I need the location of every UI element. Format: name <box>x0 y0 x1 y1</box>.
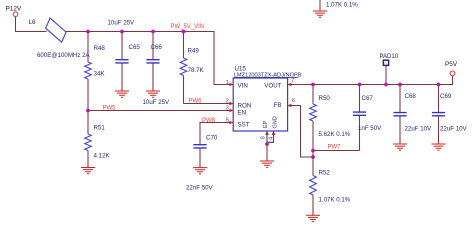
svg-text:7: 7 <box>291 78 294 84</box>
pin 2 RON <box>229 102 233 106</box>
junction PW7/FB <box>311 155 315 159</box>
junction rail/C69 <box>437 83 441 87</box>
pin 4 GND <box>272 131 276 135</box>
svg-text:C66: C66 <box>151 44 163 51</box>
wire net PW6 R49 to pin RON <box>184 103 234 105</box>
capacitor C67 <box>359 85 361 112</box>
junction EP/GND <box>265 142 269 146</box>
svg-text:FB: FB <box>274 102 282 109</box>
pin 1 VIN <box>229 83 233 87</box>
svg-text:R51: R51 <box>94 125 106 132</box>
svg-text:22uF 10V: 22uF 10V <box>440 126 468 133</box>
junction rail/C67 <box>358 83 362 87</box>
svg-text:78.7K: 78.7K <box>188 67 205 74</box>
svg-text:GND: GND <box>272 116 278 128</box>
svg-text:4.12K: 4.12K <box>94 153 111 160</box>
svg-text:R49: R49 <box>188 48 200 55</box>
svg-text:3: 3 <box>226 105 229 111</box>
wire net PW8 pin SST to C70 <box>200 123 233 145</box>
resistor R52 <box>312 157 314 176</box>
ground under C65 <box>115 91 129 97</box>
port P12V <box>13 12 18 17</box>
svg-text:EP: EP <box>263 120 269 128</box>
junction rail/C68 <box>398 83 402 87</box>
svg-text:VIN: VIN <box>238 82 248 89</box>
pin 8 EP <box>265 131 269 135</box>
cropped resistor stub at top with value 1.07K 0.1% <box>319 0 321 11</box>
junction rail/R49 <box>182 30 186 34</box>
junction rail/C66 <box>151 30 155 34</box>
capacitor C65 <box>121 32 123 60</box>
svg-text:PW8: PW8 <box>202 118 216 124</box>
wire P12V to bead L6 <box>16 17 47 32</box>
wire net P5V VOUT rail <box>288 76 453 85</box>
svg-text:P5V: P5V <box>445 61 458 68</box>
ground under R51 <box>81 168 95 174</box>
svg-text:R52: R52 <box>319 170 331 177</box>
junction rail/PAD10 <box>384 83 388 87</box>
svg-text:1: 1 <box>226 80 229 86</box>
svg-text:22uF 10V: 22uF 10V <box>405 126 433 133</box>
capacitor C70 <box>193 145 206 148</box>
pad PAD10 <box>383 60 388 65</box>
resistor R50 <box>312 85 314 105</box>
pin 5 SST <box>229 121 233 125</box>
pin 3 EN <box>229 109 233 113</box>
ground under C68 <box>393 144 407 150</box>
svg-text:C69: C69 <box>440 93 452 100</box>
ferrite bead L6 <box>46 18 67 42</box>
svg-text:10uF 25V: 10uF 25V <box>143 99 171 106</box>
wire EP/GND to ground <box>266 144 268 161</box>
wire net PW_5V_VIN bead to VIN <box>66 32 234 85</box>
svg-text:P12V: P12V <box>6 6 22 13</box>
ground under R52 <box>306 215 320 221</box>
resistor R48 <box>87 32 89 63</box>
svg-text:1.07K 0.1%: 1.07K 0.1% <box>319 197 351 204</box>
junction PW5/R51 <box>86 109 90 113</box>
svg-text:1.07K 0.1%: 1.07K 0.1% <box>326 1 358 8</box>
svg-text:5: 5 <box>226 118 229 124</box>
svg-text:SST: SST <box>238 122 250 129</box>
svg-text:2: 2 <box>226 98 229 104</box>
wire net PW7 <box>313 150 360 152</box>
ground under top stub <box>313 11 327 17</box>
wire net PW5 R48 to pin EN <box>88 110 233 112</box>
capacitor C69 <box>438 85 440 113</box>
svg-text:22nF 50V: 22nF 50V <box>186 185 214 192</box>
svg-text:R50: R50 <box>319 95 331 102</box>
svg-text:R48: R48 <box>94 45 106 52</box>
wire FB to PW7 <box>288 106 313 158</box>
ground under C66 <box>146 91 160 97</box>
IC bottom pins EP/GND tie <box>266 132 268 145</box>
op-amp regulator U15 LMZ12003TZX-ADJ/NOPB body <box>233 78 287 131</box>
svg-text:10uF 25V: 10uF 25V <box>108 20 136 27</box>
svg-text:C70: C70 <box>206 135 218 142</box>
ground under U15 <box>260 161 274 167</box>
svg-text:1nF 50V: 1nF 50V <box>358 125 382 132</box>
svg-text:8: 8 <box>261 136 267 139</box>
pin 7 VOUT <box>288 83 292 87</box>
svg-text:C67: C67 <box>362 95 374 102</box>
svg-text:PW7: PW7 <box>328 145 342 151</box>
svg-text:PW6: PW6 <box>189 98 203 104</box>
junction rail/R48 <box>86 30 90 34</box>
svg-text:EN: EN <box>238 110 247 117</box>
svg-text:PW5: PW5 <box>103 106 117 112</box>
capacitor C68 <box>399 85 401 113</box>
svg-text:6: 6 <box>292 98 295 104</box>
svg-text:PAD10: PAD10 <box>380 54 399 60</box>
ground under C69 <box>432 144 446 150</box>
junction rail/R50 <box>311 83 315 87</box>
port P5V <box>450 71 455 76</box>
svg-text:L6: L6 <box>29 19 36 26</box>
resistor R49 <box>183 32 185 59</box>
svg-text:U15: U15 <box>235 66 247 73</box>
pin 6 FB <box>288 104 292 108</box>
svg-text:VOUT: VOUT <box>264 82 281 89</box>
svg-text:5.62K 0.1%: 5.62K 0.1% <box>319 131 351 138</box>
resistor R51 <box>87 111 89 135</box>
capacitor C66 <box>152 32 154 60</box>
svg-text:C68: C68 <box>405 93 417 100</box>
svg-text:600E@100MHz 2A: 600E@100MHz 2A <box>37 52 91 59</box>
junction PW7/R50 <box>311 149 315 153</box>
svg-text:RON: RON <box>238 103 252 110</box>
ground under C70 <box>193 168 207 174</box>
svg-text:34K: 34K <box>94 71 106 78</box>
svg-text:PW_5V_VIN: PW_5V_VIN <box>171 24 205 30</box>
wire PAD10 to rail <box>385 66 387 85</box>
junction rail/C65 <box>120 30 124 34</box>
svg-text:C65: C65 <box>129 44 141 51</box>
